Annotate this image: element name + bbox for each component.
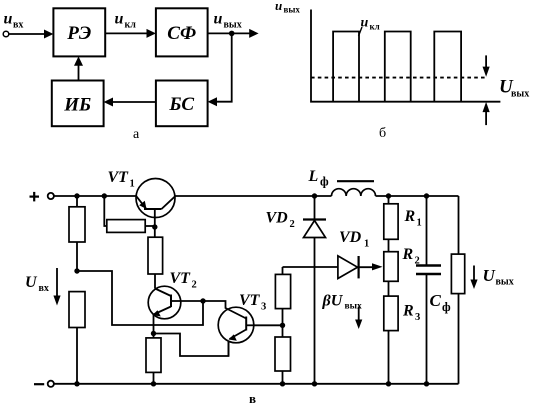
svg-text:кл: кл [370, 22, 380, 32]
label R1 [404, 208, 422, 229]
block РЭ [53, 8, 105, 56]
label u_вых axis [275, 0, 300, 15]
inductor Lф [332, 181, 376, 196]
svg-text:R: R [402, 246, 414, 263]
svg-text:u: u [214, 11, 223, 28]
node top rail divider tap [74, 193, 79, 198]
pulse 1 [333, 32, 359, 102]
svg-text:VT: VT [239, 292, 261, 309]
label VT3 [239, 292, 266, 313]
svg-text:1: 1 [130, 179, 135, 190]
node plus terminal [48, 193, 54, 199]
svg-text:БС: БС [168, 94, 194, 115]
resistor VT2 emitter [146, 334, 161, 384]
wire ИБ to РЭ [74, 56, 83, 80]
wire top rail right [376, 195, 459, 197]
resistor VT1 base to VT2 collector [148, 227, 163, 289]
wire СФ output [208, 29, 259, 38]
svg-text:вых: вых [224, 20, 242, 31]
node top rail base-resistor tap [102, 193, 107, 198]
resistor base (horizontal) [104, 196, 155, 232]
load resistor output [451, 196, 464, 384]
wire bottom rail [54, 383, 459, 385]
dashed line U_вых level [311, 77, 486, 79]
resistor R2 potentiometer [384, 252, 398, 296]
svg-text:C: C [430, 291, 442, 310]
node output junction [229, 31, 235, 37]
resistor R3 [384, 296, 398, 384]
svg-text:u: u [4, 11, 13, 28]
label minus terminal [34, 383, 44, 385]
node bottom rail Cф [424, 381, 429, 386]
svg-text:вх: вх [13, 20, 23, 31]
svg-text:u: u [275, 0, 282, 13]
divider resistor lower left [69, 292, 85, 384]
node VT2 base junction [200, 298, 205, 303]
diode VD2 [303, 196, 326, 384]
svg-text:U: U [25, 274, 38, 291]
axis u_вых graph [311, 10, 500, 102]
divider resistor lower right [275, 325, 291, 384]
node input terminal [3, 31, 9, 37]
wire top rail middle [175, 195, 331, 197]
node bottom rail divider [74, 381, 79, 386]
label u_вх [4, 11, 24, 31]
svg-text:3: 3 [415, 312, 420, 323]
node minus terminal [48, 381, 54, 387]
wire РЭ to СФ [105, 29, 156, 38]
svg-text:в: в [249, 391, 256, 406]
label VT2 [170, 270, 197, 291]
node VT3 collector junction [280, 323, 285, 328]
svg-text:βU: βU [322, 293, 344, 310]
svg-text:VD: VD [339, 229, 362, 246]
svg-text:L: L [308, 168, 319, 185]
label U_вх [25, 274, 49, 294]
svg-text:ф: ф [442, 300, 451, 314]
block СФ [156, 8, 208, 56]
svg-text:R: R [404, 208, 416, 225]
arrow βU_вых [355, 307, 362, 330]
label VD1 [339, 229, 369, 250]
svg-text:VT: VT [170, 270, 192, 287]
svg-text:вх: вх [39, 283, 49, 294]
svg-text:2: 2 [290, 219, 295, 230]
svg-text:3: 3 [261, 302, 266, 313]
node bottom rail divider right [280, 381, 285, 386]
svg-text:ИБ: ИБ [63, 95, 91, 116]
svg-text:2: 2 [192, 280, 197, 291]
svg-text:б: б [379, 126, 386, 141]
svg-text:вых: вых [496, 277, 514, 288]
wire VT2 base to node [181, 300, 203, 302]
wire input to РЭ [9, 30, 54, 39]
divider resistor upper right [275, 267, 290, 325]
node divider mid [74, 268, 79, 273]
resistor R1 [384, 196, 398, 252]
svg-text:вых: вых [284, 5, 301, 15]
transistor VT2 [148, 286, 181, 333]
label plus terminal [30, 192, 40, 202]
label R3 [402, 303, 420, 324]
label u_кл [115, 11, 137, 31]
node bottom rail VT2 emitter resistor [151, 381, 156, 386]
label U_вых [499, 77, 529, 100]
pulse 2 [385, 32, 411, 102]
block ИБ [52, 81, 104, 127]
dimension arrow upper [483, 55, 490, 76]
transistor VT3 [203, 301, 254, 356]
wire divider to VT2 base [77, 271, 203, 325]
label Lф [308, 168, 330, 189]
wire БС to ИБ [104, 98, 156, 107]
wire feedback to VD1 [283, 266, 338, 268]
svg-text:U: U [483, 266, 496, 285]
svg-text:VT: VT [108, 169, 130, 186]
svg-text:РЭ: РЭ [66, 23, 91, 44]
svg-text:VD: VD [266, 210, 289, 227]
pulse 3 [434, 32, 461, 102]
svg-text:u: u [115, 11, 124, 28]
wire output to БС [208, 33, 232, 106]
svg-text:1: 1 [417, 218, 422, 229]
label βU_вых [322, 293, 363, 312]
node VT2 emitter [151, 331, 156, 336]
svg-text:1: 1 [364, 239, 369, 250]
capacitor Cф [416, 196, 441, 384]
dimension arrow lower [483, 102, 490, 125]
arrow U_вх [53, 268, 60, 306]
label VD2 [266, 210, 295, 231]
block БС [156, 81, 208, 127]
node top rail R1 [386, 193, 391, 198]
arrow U_вых output [470, 266, 477, 290]
node VT1 base [152, 224, 157, 229]
node top rail VD2 [312, 193, 317, 198]
svg-text:а: а [133, 127, 140, 142]
label u_кл pulse [359, 16, 380, 37]
label U_вых output [483, 266, 514, 288]
diode VD1 [338, 256, 383, 279]
wire top rail left [54, 195, 136, 197]
label VT1 [108, 169, 135, 190]
node bottom rail VD2 [312, 381, 317, 386]
label Cф [430, 291, 452, 314]
transistor VT1 [136, 179, 175, 228]
svg-text:R: R [402, 303, 414, 320]
wire VT2 emitter to VT3 emitter [154, 334, 229, 357]
svg-text:вых: вых [511, 89, 529, 100]
wire VT3 collector [254, 324, 283, 326]
node bottom rail R3 [386, 381, 391, 386]
svg-text:ф: ф [320, 175, 329, 189]
label R2 [402, 246, 420, 267]
divider resistor upper left [69, 196, 85, 271]
label u_вых [214, 11, 242, 31]
svg-text:кл: кл [125, 20, 137, 31]
svg-text:СФ: СФ [167, 23, 196, 44]
node top rail Cф [424, 193, 429, 198]
